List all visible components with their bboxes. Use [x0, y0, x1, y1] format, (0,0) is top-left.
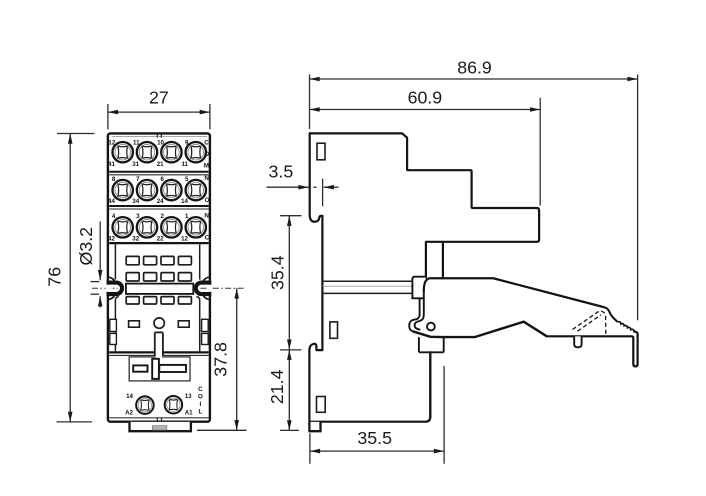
svg-text:86.9: 86.9 — [457, 58, 492, 78]
terminal numbers row 2 — [108, 176, 189, 205]
bottom inner line — [109, 417, 209, 419]
NO letters row 2 — [204, 175, 209, 204]
svg-text:11: 11 — [133, 140, 140, 147]
terminal numbers row 1 — [108, 140, 189, 169]
tab grey insert — [152, 426, 167, 430]
terminal screws row 1 — [113, 142, 133, 162]
svg-text:C: C — [198, 386, 203, 393]
support column — [429, 352, 431, 417]
lever end hook — [547, 332, 638, 367]
svg-text:24: 24 — [157, 198, 164, 205]
svg-text:32: 32 — [132, 235, 139, 242]
svg-text:I: I — [200, 401, 202, 408]
svg-text:60.9: 60.9 — [408, 87, 443, 107]
dimension diameter 3.2 — [76, 222, 100, 308]
svg-text:C: C — [205, 235, 210, 242]
central band — [126, 284, 193, 294]
bottom separator of middle section — [109, 351, 209, 353]
top centre notch — [156, 134, 158, 138]
small window middle — [330, 322, 338, 338]
NC letters row 3 — [204, 212, 209, 241]
dimension 35.5 — [310, 366, 444, 464]
slot row B — [126, 273, 191, 281]
svg-text:O: O — [204, 151, 209, 158]
lever hanging notch — [574, 336, 581, 347]
svg-text:7: 7 — [136, 176, 140, 183]
svg-text:37.8: 37.8 — [210, 342, 230, 377]
svg-text:76: 76 — [44, 267, 64, 287]
svg-text:35.5: 35.5 — [357, 428, 392, 448]
svg-text:N: N — [204, 175, 209, 182]
side clip boxes right — [202, 319, 209, 331]
T-slot channel below circle — [156, 350, 162, 358]
right mounting keyhole — [196, 283, 212, 295]
svg-text:N: N — [204, 212, 209, 219]
svg-text:2: 2 — [161, 213, 165, 220]
svg-text:O: O — [205, 197, 210, 204]
latch block — [412, 277, 426, 299]
dashed alternate lever position — [573, 311, 606, 335]
centre dash-dot line through mounting holes — [92, 287, 118, 289]
svg-text:41: 41 — [108, 161, 115, 168]
svg-text:10: 10 — [157, 140, 164, 147]
coil terminal labels — [125, 393, 133, 416]
svg-text:3.5: 3.5 — [269, 161, 294, 181]
dimension 3.5 — [267, 161, 339, 206]
svg-text:A1: A1 — [185, 409, 193, 416]
top inner shade line — [112, 136, 208, 138]
svg-text:1: 1 — [185, 213, 189, 220]
bottom tab — [130, 422, 191, 431]
middle section inner verticals — [114, 244, 116, 279]
svg-text:13: 13 — [185, 393, 192, 400]
svg-text:12: 12 — [108, 140, 115, 147]
svg-text:Ø3.2: Ø3.2 — [76, 227, 96, 266]
svg-text:8: 8 — [112, 176, 116, 183]
small window lower — [317, 397, 326, 413]
bottom centre notch — [156, 418, 158, 422]
svg-text:4: 4 — [112, 213, 116, 220]
svg-text:O: O — [198, 394, 203, 401]
svg-text:35.4: 35.4 — [268, 255, 288, 290]
svg-text:27: 27 — [149, 87, 169, 107]
svg-text:11: 11 — [181, 161, 188, 168]
small window top — [317, 143, 325, 160]
DIMENSIONS — [44, 58, 637, 464]
svg-text:21.4: 21.4 — [267, 369, 287, 404]
svg-text:14: 14 — [126, 393, 133, 400]
FRONT VIEW — [92, 133, 246, 431]
slot row C — [126, 297, 191, 304]
svg-text:22: 22 — [157, 235, 164, 242]
svg-text:12: 12 — [181, 235, 188, 242]
coil terminal A1 — [165, 396, 183, 414]
lever top edge — [424, 278, 604, 307]
terminal screws row 3 — [113, 217, 133, 237]
pivot circle — [427, 323, 435, 331]
left mounting keyhole — [107, 283, 123, 295]
svg-text:3: 3 — [136, 213, 140, 220]
svg-text:21: 21 — [157, 161, 164, 168]
support foot block — [419, 337, 444, 352]
dimension 37.8 — [197, 288, 247, 430]
dimension 21.4 — [267, 350, 299, 431]
centre small slots + circle — [129, 321, 140, 327]
slot row A — [126, 256, 191, 264]
horizontal bar to latch block (double line) — [322, 280, 412, 282]
svg-text:M: M — [204, 162, 209, 169]
relay channel right line — [442, 242, 444, 278]
COM letters row 1 — [204, 139, 209, 169]
SIDE VIEW — [309, 133, 637, 431]
row separator 2 — [109, 205, 209, 207]
label area bars — [133, 365, 147, 371]
lever grip serrations — [618, 322, 634, 332]
lever bottom edge with notch — [413, 322, 547, 337]
dimension 76 — [44, 134, 94, 422]
side clip boxes left — [110, 319, 117, 331]
terminal screws row 2 — [113, 180, 133, 200]
bottom foot — [309, 422, 320, 431]
svg-text:14: 14 — [181, 198, 188, 205]
svg-text:L: L — [199, 409, 203, 416]
svg-text:34: 34 — [132, 198, 139, 205]
svg-text:A2: A2 — [125, 409, 133, 416]
svg-text:9: 9 — [185, 140, 189, 147]
dimension 86.9 — [310, 58, 638, 321]
terminal numbers row 3 — [108, 213, 189, 242]
row separator 3 — [109, 242, 209, 244]
label area rectangle — [129, 357, 190, 381]
front body outline — [108, 133, 210, 421]
dimension 27 — [108, 87, 210, 129]
svg-text:42: 42 — [108, 235, 115, 242]
row separator 1 — [109, 171, 209, 173]
svg-text:C: C — [204, 139, 209, 146]
svg-text:31: 31 — [132, 161, 139, 168]
left edge upper with ear hook — [309, 133, 430, 421]
dimension 35.4 — [268, 216, 302, 350]
dimension 60.9 — [310, 87, 541, 205]
coil terminal A2 — [136, 396, 154, 414]
svg-text:44: 44 — [108, 198, 115, 205]
staircase top outline — [310, 133, 539, 278]
COIL text — [198, 386, 203, 416]
svg-text:5: 5 — [185, 176, 189, 183]
claw outer curl — [409, 298, 419, 331]
claw inner curl — [415, 289, 424, 330]
svg-text:6: 6 — [161, 176, 165, 183]
release lever silhouette fill — [410, 277, 638, 367]
lever nose curve — [603, 307, 617, 322]
